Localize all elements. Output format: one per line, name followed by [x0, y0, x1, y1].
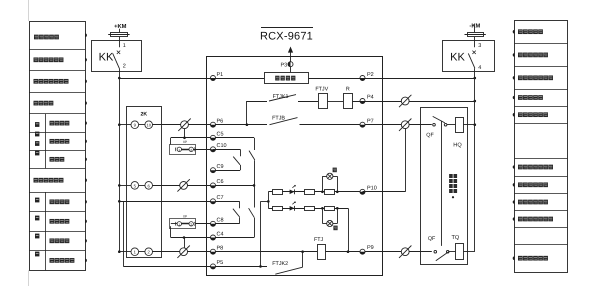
resistor R1 [273, 190, 283, 195]
wire C5 [171, 137, 254, 139]
left table row 3 label: protection working positive supply [34, 79, 39, 84]
protection power supply box 保护电源 [265, 73, 309, 84]
svg-text:KK: KK [450, 52, 465, 64]
left table row 4 label: anti-pump circuit [34, 101, 39, 106]
terminal C10 [211, 147, 216, 152]
2K contacts 9-10 [119, 124, 131, 126]
tap connector P6 wire down to C5 wire [184, 129, 186, 138]
svg-text:FTJV: FTJV [315, 87, 328, 93]
resistor R3 (parallel with green lamp) [325, 190, 335, 195]
terminal P4 [360, 99, 365, 104]
2K contact C6-C4 vertical [254, 185, 256, 207]
svg-text:P6: P6 [217, 119, 224, 125]
svg-text:P4: P4 [367, 95, 374, 101]
terminal nubs on left table right edge [85, 33, 87, 37]
left table row 8 label: signal supply monitor [34, 178, 39, 183]
fuse +KM [119, 29, 121, 33]
resistor R6 (parallel with red lamp) [325, 207, 335, 211]
control switch KK (left) [92, 41, 142, 72]
2K contacts 1-2 [119, 251, 131, 253]
terminal P3 (left-half filled) [288, 62, 293, 67]
svg-text:C8: C8 [217, 218, 224, 224]
node: red lamp loop taps [321, 207, 324, 210]
svg-text:C6: C6 [217, 179, 224, 185]
right table row 4 label: anti-pump negative supply [518, 95, 523, 100]
relay 2K box [127, 107, 162, 258]
left table row 6 label: remote close [50, 139, 55, 144]
svg-text:XP: XP [183, 140, 187, 144]
left table row 7 label: reclose [50, 157, 55, 162]
left table row 10 label: remote trip [50, 219, 55, 224]
arrow up from P3 [290, 48, 292, 72]
resistor R2 [305, 190, 315, 195]
svg-text:FTJK2: FTJK2 [272, 261, 288, 267]
svg-text:P7: P7 [367, 118, 374, 124]
main device box [207, 57, 383, 276]
anti-pump relay coil FTJ [318, 245, 326, 260]
svg-text:XP: XP [183, 215, 187, 219]
terminal P6 [211, 122, 216, 127]
vertical section label 合闸回路 [35, 122, 39, 127]
svg-text:TQ: TQ [452, 235, 460, 241]
closing coil HQ [447, 124, 456, 126]
terminal C8 [211, 221, 216, 226]
diode V1 [290, 190, 295, 195]
svg-text:+KM: +KM [114, 24, 127, 30]
terminal P5 [211, 264, 216, 269]
svg-text:2: 2 [123, 64, 126, 70]
right table row 8 label: trip circuit monitor [518, 200, 523, 205]
node branch split [267, 200, 270, 203]
svg-text:P10: P10 [367, 186, 377, 192]
terminal C4 [211, 235, 216, 240]
label: red [333, 226, 337, 231]
wire 2K:10 to P6 [153, 124, 268, 126]
left terminal-description table [30, 22, 86, 271]
wire C7 from bus [119, 201, 239, 203]
wire R to P4 out to bus [353, 101, 475, 103]
wire C6 with connector [153, 185, 255, 187]
QF aux contact (bottom) [434, 250, 437, 253]
contact FTJK2 [275, 267, 302, 274]
breaker mechanism box [421, 108, 468, 265]
terminal P9 [360, 249, 365, 254]
svg-text:P8: P8 [217, 246, 224, 252]
svg-text:FTJ: FTJ [314, 237, 324, 243]
svg-text:FTJK1: FTJK1 [273, 94, 289, 100]
vertical section label 跳闸回路 [35, 198, 39, 203]
resistor R5 [305, 207, 315, 211]
svg-text:P2: P2 [367, 72, 374, 78]
wire red lamp loop [322, 208, 324, 223]
left table row 12 label: trip hold [50, 258, 55, 263]
terminal C6 [211, 183, 216, 188]
right table row 9 label: protection closed-position lamp [518, 217, 523, 222]
svg-text:3: 3 [478, 43, 481, 49]
wire P5 from C7 drop [123, 201, 125, 266]
right table row 1 label: control negative supply [518, 29, 523, 34]
wire branch splitter [268, 192, 270, 209]
faint fold line bottom-left [28, 270, 30, 286]
svg-text:KK: KK [99, 52, 114, 64]
svg-text:C7: C7 [217, 195, 224, 201]
2K contact C10-C9 [213, 149, 240, 151]
wire lower monitor branch [268, 208, 348, 210]
right table row 6 label: protection open-position lamp [518, 165, 523, 170]
fuse -KM [474, 24, 476, 32]
svg-text:1: 1 [123, 43, 126, 49]
svg-text:P1: P1 [217, 72, 224, 78]
wire upper monitor branch to P10 [268, 191, 362, 193]
svg-text:FTJB: FTJB [272, 115, 285, 121]
svg-text:4: 4 [478, 65, 481, 71]
svg-text:QF: QF [426, 132, 434, 138]
connector on P9 wire [401, 248, 409, 256]
terminal C9 [213, 170, 240, 172]
wire +KM junction to P1 [118, 77, 121, 80]
svg-text:C5: C5 [217, 132, 224, 138]
svg-text:2K: 2K [140, 112, 147, 118]
riser from P7 connector down to P10 wire [405, 128, 407, 191]
right table row 2 label: switch control negative [518, 53, 523, 58]
svg-text:10: 10 [146, 123, 151, 128]
aux contact common wire [441, 121, 443, 246]
wire P2 to -KM bus [309, 78, 475, 80]
right table row 10 label: switch trip coil [518, 256, 523, 261]
svg-text:P5: P5 [217, 260, 224, 266]
left table row 9 label: protection trip [50, 199, 55, 204]
left table row 1 label: control positive supply [34, 35, 39, 40]
svg-text:QF: QF [428, 236, 436, 242]
left table row 2 label: switch control positive [34, 57, 39, 62]
contact FTJB [270, 118, 298, 125]
connector on P7 wire [401, 121, 409, 129]
node: green lamp loop taps [321, 191, 324, 194]
relay coil FTJV [319, 94, 328, 109]
right table row 7 label: closing circuit monitor [518, 182, 523, 187]
svg-text:R: R [346, 87, 350, 93]
tripping coil TQ [449, 251, 456, 253]
terminal C7 [211, 199, 216, 204]
svg-text:RCX-9671: RCX-9671 [260, 31, 313, 43]
terminal C5 [211, 135, 216, 140]
2K contacts 5-6 [119, 185, 131, 187]
wire C4 [171, 237, 254, 239]
left table row 5 label: manual close [50, 121, 55, 126]
wire branch feed from P5 line [260, 201, 262, 266]
contact FTJK1 [246, 101, 248, 125]
svg-text:C9: C9 [217, 164, 224, 170]
svg-text:C4: C4 [217, 231, 224, 237]
terminal P7 [360, 122, 365, 127]
connector on P8 wire [180, 248, 188, 256]
svg-text:P9: P9 [367, 245, 374, 251]
vertical label 操动机构 (tiny 2-col text block) [449, 174, 453, 178]
2K contact C7-C8 [239, 201, 241, 208]
resistor R4 [273, 207, 283, 211]
faint fold line top-left [28, 0, 30, 21]
left supply bus [119, 78, 121, 252]
link XP lower (C8-C4) [170, 219, 196, 229]
svg-text:C10: C10 [217, 143, 227, 149]
2K contact C5-C6 vertical [254, 138, 256, 150]
connector on P6 wire [181, 121, 189, 129]
svg-text:P3: P3 [280, 62, 287, 68]
terminal nubs on right table left edge [513, 30, 515, 34]
svg-text:-KM: -KM [469, 24, 480, 30]
right table row 5 label: switch closing coil [518, 112, 523, 117]
label: green [333, 168, 337, 173]
left table row 11 label: manual trip [50, 238, 55, 243]
svg-text:HQ: HQ [453, 142, 462, 148]
right terminal-description table [515, 21, 568, 273]
wire C8 [193, 223, 239, 225]
right table row 3 label: protection working negative supply [518, 75, 523, 80]
terminal P2 [360, 76, 365, 81]
wire riser lower branch to FTJ output node [348, 208, 350, 251]
terminal P1 [211, 76, 216, 81]
wire 2K:2 to P8 to FTJ [153, 251, 318, 253]
resistor R [344, 94, 353, 109]
terminal P8 [211, 249, 216, 254]
negative supply bus [474, 78, 476, 252]
diode V2 [290, 206, 295, 211]
QF aux contact (top) [433, 123, 436, 126]
wire FTJB to P7 to QF [300, 124, 432, 126]
green indicator lamp LD [327, 173, 333, 179]
wire green lamp loop [322, 176, 324, 192]
control switch KK (right) [443, 41, 495, 72]
red indicator lamp HD [327, 220, 333, 226]
connector on P4 wire [401, 97, 409, 105]
tap C4 wire down to P8 connector [184, 238, 186, 248]
terminal P10 [360, 189, 365, 194]
link XP upper (C5-C10) [170, 138, 172, 147]
